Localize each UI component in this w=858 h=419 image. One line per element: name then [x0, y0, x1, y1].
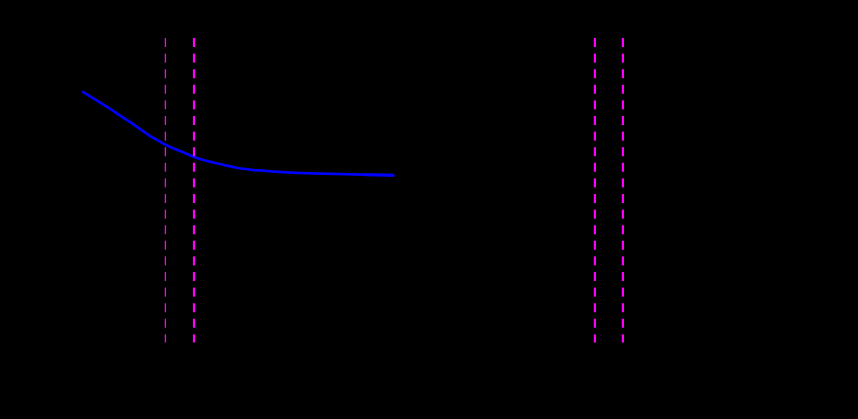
left dashed line 1 (thin) [164, 38, 166, 343]
blue curve end segment (slightly thicker data cluster) [366, 173, 393, 177]
blue loss curve [83, 92, 393, 175]
left dashed line 2 (thick) [193, 38, 195, 343]
right dashed line 2 [622, 38, 624, 343]
right dashed line 1 [594, 38, 596, 343]
